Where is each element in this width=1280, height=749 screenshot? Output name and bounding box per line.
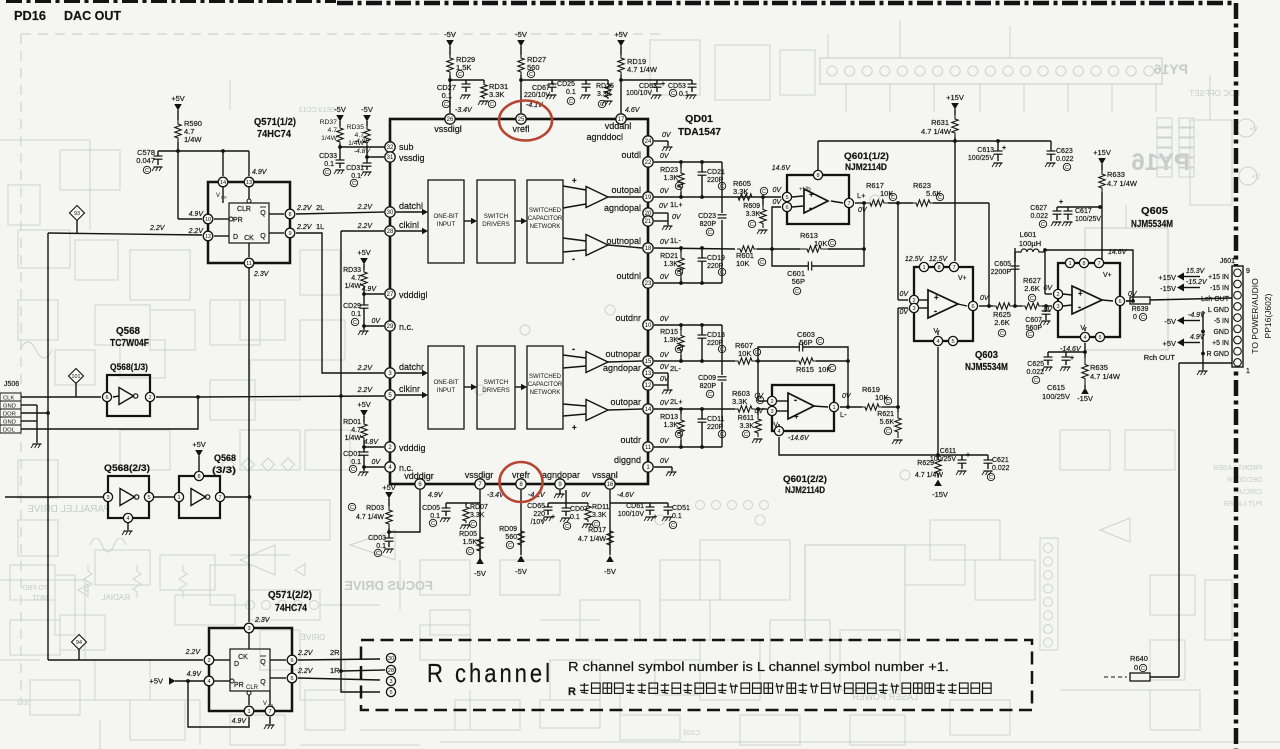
ground RD31 bbox=[480, 100, 489, 102]
pin 26 vssdigl bbox=[445, 114, 455, 124]
wire triangle L2 in bbox=[563, 238, 586, 241]
svg-text:2.2V: 2.2V bbox=[357, 387, 374, 394]
svg-text:R631: R631 bbox=[931, 118, 949, 127]
svg-text:0.022: 0.022 bbox=[1030, 213, 1048, 220]
svg-text:1L: 1L bbox=[316, 222, 324, 231]
svg-text:+: + bbox=[1059, 199, 1063, 206]
svg-text:4.7 1/4W: 4.7 1/4W bbox=[356, 514, 384, 521]
R channel dashed box bbox=[361, 640, 1032, 710]
capacitor CD05 bbox=[445, 503, 447, 508]
ground C617 bbox=[1064, 221, 1073, 223]
svg-text:2: 2 bbox=[770, 399, 773, 405]
pin q603 3 bbox=[909, 303, 918, 312]
ground J506 bbox=[33, 443, 42, 445]
stub in 1/3 bbox=[113, 396, 119, 397]
stub q603 pin2 bbox=[919, 299, 928, 301]
ground CD31 bbox=[363, 171, 372, 173]
ground CD33 bbox=[336, 169, 345, 171]
svg-text:V+: V+ bbox=[958, 275, 967, 282]
resistor R619 bbox=[862, 404, 882, 410]
pin q605 3 bbox=[1053, 301, 1062, 310]
power -5V below RD05 bbox=[476, 558, 484, 565]
svg-text:V+: V+ bbox=[1251, 174, 1260, 181]
wire +5V to pin4 bbox=[175, 680, 204, 682]
svg-text:+5V: +5V bbox=[171, 94, 185, 103]
resistor R629 bbox=[935, 455, 941, 478]
svg-text:V-: V- bbox=[933, 328, 940, 335]
pin 4 gate bbox=[123, 513, 132, 522]
svg-text:-15.2V: -15.2V bbox=[1186, 279, 1208, 286]
svg-text:3.3K: 3.3K bbox=[733, 187, 748, 196]
wire data vertical x48 bbox=[47, 233, 49, 660]
node R605 out bbox=[761, 195, 765, 199]
svg-text:11: 11 bbox=[246, 261, 252, 267]
svg-text:2200P: 2200P bbox=[991, 269, 1012, 276]
svg-text:C: C bbox=[1141, 315, 1145, 321]
pin 32 sub bbox=[385, 142, 395, 152]
svg-text:4.7: 4.7 bbox=[355, 132, 365, 139]
svg-text:3.3K: 3.3K bbox=[489, 90, 504, 99]
wire rail to pin2 q601b bbox=[757, 361, 759, 401]
svg-text:agnddocl: agnddocl bbox=[586, 132, 623, 142]
svg-text:0E13 CC13: 0E13 CC13 bbox=[299, 107, 335, 114]
svg-text:CAPACITOR: CAPACITOR bbox=[528, 382, 563, 388]
svg-text:agndopar: agndopar bbox=[603, 363, 641, 373]
svg-text:4.6V: 4.6V bbox=[625, 107, 641, 114]
svg-text:R633: R633 bbox=[1107, 170, 1125, 179]
svg-text:L+: L+ bbox=[857, 191, 866, 200]
svg-text:outdr: outdr bbox=[620, 435, 641, 445]
svg-text:Q568(1/3): Q568(1/3) bbox=[110, 362, 148, 373]
resistor R605 bbox=[733, 194, 757, 200]
svg-text:n.c.: n.c. bbox=[399, 322, 414, 332]
node DOR x48 bbox=[46, 411, 50, 415]
svg-text:-: - bbox=[934, 306, 937, 316]
wire triangle R2 out bbox=[608, 409, 642, 410]
svg-text:-15V: -15V bbox=[1077, 394, 1093, 403]
op-amp Q601(2/2) box bbox=[772, 385, 834, 431]
svg-text:0V: 0V bbox=[660, 400, 670, 407]
part mark C C578 bbox=[143, 166, 150, 173]
svg-text:NJM5534M: NJM5534M bbox=[1131, 219, 1173, 230]
svg-text:4.7 1/4W: 4.7 1/4W bbox=[578, 536, 606, 543]
wire +5V to RD19 bbox=[620, 46, 622, 55]
pin 7 vssdigr bbox=[475, 479, 485, 489]
ground C578 bbox=[154, 166, 163, 168]
pin ff2 5 bbox=[287, 673, 297, 683]
wire -5V to RD27 bbox=[520, 46, 522, 55]
svg-text:C: C bbox=[938, 195, 942, 201]
pin q605 8 bbox=[1079, 258, 1088, 267]
vertical rail x722 R bbox=[721, 325, 723, 375]
resistor RD37 bbox=[339, 121, 341, 126]
pin ff2 3 bbox=[244, 623, 254, 633]
svg-text:0V: 0V bbox=[660, 352, 670, 359]
svg-text:-V: -V bbox=[771, 422, 778, 429]
svg-text:CLR: CLR bbox=[246, 685, 259, 691]
wire rail to CD67 CD25 RD25 bbox=[521, 79, 608, 81]
capacitor CD67 electrolytic bbox=[551, 80, 553, 84]
node +15 rail bbox=[953, 139, 957, 143]
power -15V below R629 bbox=[934, 480, 942, 487]
wire +5V to R590 bbox=[177, 110, 179, 120]
svg-text:J506: J506 bbox=[4, 381, 19, 388]
svg-text:Q568: Q568 bbox=[116, 326, 140, 337]
svg-text:+5V: +5V bbox=[192, 440, 206, 449]
svg-text:TO POWER/AUDIO: TO POWER/AUDIO bbox=[1250, 278, 1260, 354]
svg-text:2L: 2L bbox=[316, 203, 324, 212]
svg-text:1: 1 bbox=[1246, 368, 1250, 375]
svg-text:vssdigl: vssdigl bbox=[434, 124, 462, 134]
svg-text:94: 94 bbox=[76, 640, 82, 646]
ground RD07 bbox=[462, 524, 471, 526]
diamond net 101 bbox=[69, 369, 84, 384]
pin 13 bbox=[244, 177, 254, 187]
svg-text:CD11: CD11 bbox=[707, 416, 724, 423]
wire 2R out bbox=[298, 659, 380, 660]
svg-text:+: + bbox=[1078, 289, 1083, 298]
svg-text:24: 24 bbox=[645, 139, 652, 145]
ground C623 bbox=[1047, 162, 1056, 164]
svg-text:sub: sub bbox=[399, 142, 414, 152]
svg-text:820P: 820P bbox=[700, 383, 717, 390]
svg-text:outdnr: outdnr bbox=[615, 313, 641, 323]
wire rail left to q601 pin8 bbox=[818, 140, 955, 142]
node vddanl top bbox=[619, 78, 623, 82]
svg-text:C: C bbox=[1065, 165, 1069, 171]
svg-text:C: C bbox=[750, 222, 754, 228]
capacitor CD23 bbox=[718, 214, 727, 216]
svg-text:0V: 0V bbox=[660, 274, 670, 281]
svg-text:C: C bbox=[830, 366, 834, 372]
wire pin28 to block bbox=[396, 230, 425, 232]
svg-text:0V: 0V bbox=[842, 393, 852, 400]
svg-text:32: 32 bbox=[387, 145, 394, 151]
wire RD35 to pin 31 bbox=[367, 146, 384, 157]
wire -15 IN bbox=[1177, 284, 1184, 292]
svg-text:6: 6 bbox=[105, 395, 108, 401]
pin 1 gate bbox=[174, 492, 183, 501]
svg-text:C611: C611 bbox=[940, 448, 956, 455]
svg-text:30: 30 bbox=[387, 210, 394, 216]
resistor R635 bbox=[1082, 358, 1088, 385]
svg-text:PD16: PD16 bbox=[14, 8, 46, 23]
stub ff2 pin6 bbox=[270, 659, 286, 661]
wire node to pin 26 bbox=[449, 80, 451, 113]
pin 8 gate bbox=[194, 471, 203, 480]
pin 28 clkinl bbox=[385, 226, 395, 236]
ground C625 bbox=[1044, 366, 1053, 368]
diamond net 94 bbox=[72, 635, 87, 650]
svg-text:3: 3 bbox=[1056, 304, 1059, 310]
stub ff2 pin7 bbox=[269, 691, 271, 705]
svg-text:0V: 0V bbox=[858, 207, 868, 214]
svg-text:PY16: PY16 bbox=[1154, 61, 1188, 77]
svg-text:+: + bbox=[966, 452, 970, 459]
svg-text:(3/3): (3/3) bbox=[212, 465, 236, 476]
svg-text:C: C bbox=[795, 289, 799, 295]
svg-text:C: C bbox=[145, 168, 149, 174]
svg-text:Q601(2/2): Q601(2/2) bbox=[783, 474, 827, 485]
flip-flop inner box bbox=[229, 203, 269, 243]
svg-text:0.1: 0.1 bbox=[351, 173, 361, 180]
red highlight ellipse vrefr bbox=[500, 462, 543, 502]
wire +5V to RD33 bbox=[363, 264, 365, 270]
capacitor CD61 bbox=[649, 503, 651, 507]
pin 5 clkinr bbox=[385, 390, 395, 400]
pin 27 vdddigl bbox=[385, 289, 395, 299]
svg-text:56P: 56P bbox=[799, 338, 812, 347]
wire +15V R633 bbox=[1101, 164, 1103, 170]
svg-text:outopar: outopar bbox=[610, 397, 641, 407]
svg-text:5.6K: 5.6K bbox=[880, 419, 895, 426]
wire q601 out bbox=[855, 202, 866, 204]
arrow blocks R 1 bbox=[464, 386, 474, 388]
svg-text:4: 4 bbox=[936, 339, 939, 345]
wire q601b pin4 down rail bbox=[779, 437, 938, 455]
node C613 bbox=[996, 139, 1000, 143]
svg-text:100/25V: 100/25V bbox=[930, 456, 956, 463]
svg-text:CD05: CD05 bbox=[422, 505, 440, 512]
pin ff2 7 bbox=[265, 706, 275, 716]
tee vssanl bbox=[610, 502, 668, 504]
svg-text:C: C bbox=[444, 102, 448, 108]
svg-text:0.1: 0.1 bbox=[672, 513, 682, 520]
resistor R633 bbox=[1099, 170, 1105, 192]
pin 29 n.c. left bbox=[385, 321, 395, 331]
svg-text:0.047: 0.047 bbox=[136, 156, 155, 165]
pin 6 vdddigr bbox=[415, 479, 425, 489]
svg-text:12.5V: 12.5V bbox=[905, 256, 925, 263]
ground R609 bbox=[759, 229, 768, 231]
part mark C CD31 bbox=[350, 179, 357, 186]
stub pin14 bbox=[222, 182, 224, 203]
svg-text:V: V bbox=[216, 193, 220, 199]
svg-text:C: C bbox=[350, 505, 354, 511]
pin 21 agndopal b bbox=[643, 216, 653, 226]
pin 7 gate bbox=[215, 492, 224, 501]
svg-text:6: 6 bbox=[290, 658, 293, 664]
svg-text:4.7 1/4W: 4.7 1/4W bbox=[1107, 179, 1138, 188]
page border chain line top bbox=[6, 0, 336, 3]
svg-text:13: 13 bbox=[645, 371, 652, 377]
svg-text:220P: 220P bbox=[707, 263, 724, 270]
node vssdigl top bbox=[448, 78, 452, 82]
svg-text:30: 30 bbox=[388, 656, 394, 662]
stub q601b out bbox=[813, 406, 828, 407]
svg-text:C: C bbox=[818, 339, 822, 345]
svg-text:DRIVE: DRIVE bbox=[301, 633, 325, 642]
svg-text:-3.4V: -3.4V bbox=[455, 107, 473, 114]
capacitor CD63 bbox=[656, 80, 658, 84]
part mark C CD33 bbox=[323, 168, 330, 175]
wire R631 node bbox=[954, 137, 956, 141]
svg-text:4.9V: 4.9V bbox=[232, 718, 248, 725]
wire outdnl rail bbox=[654, 282, 722, 284]
svg-text:2: 2 bbox=[207, 658, 210, 664]
wire q605 out to R639 bbox=[1126, 300, 1130, 302]
wire CD29 to node nc bbox=[363, 314, 365, 326]
svg-text:INPUT: INPUT bbox=[437, 387, 456, 394]
svg-text:PY16: PY16 bbox=[1131, 149, 1190, 176]
wire RD33 to node bbox=[363, 288, 365, 294]
stub pin2 q601b bbox=[758, 400, 767, 402]
capacitor CD29 bbox=[363, 294, 365, 305]
svg-text:PUT LASER: PUT LASER bbox=[1223, 501, 1262, 508]
wire +5 IN bbox=[1177, 339, 1184, 347]
svg-text:C: C bbox=[891, 195, 895, 201]
wire GND row bbox=[1201, 330, 1205, 334]
svg-text:J162: J162 bbox=[16, 701, 30, 707]
svg-text:100/25V: 100/25V bbox=[1075, 216, 1101, 223]
pin 22 outdl bbox=[643, 157, 653, 167]
svg-text:CD65: CD65 bbox=[527, 503, 545, 510]
resistor R625 bbox=[993, 303, 1013, 309]
pin q605 5 bbox=[1095, 332, 1104, 341]
svg-text:Lch OUT: Lch OUT bbox=[1201, 296, 1230, 303]
svg-text:-5V: -5V bbox=[444, 30, 456, 39]
part mark C RD31 bbox=[488, 100, 495, 107]
ground RD25 bbox=[604, 100, 613, 102]
svg-text:7: 7 bbox=[952, 265, 955, 271]
resistor RD17 bbox=[607, 526, 613, 550]
svg-text:CAPACITOR: CAPACITOR bbox=[528, 216, 563, 222]
wire triangle L1 in bbox=[563, 186, 586, 190]
svg-text:1.3K: 1.3K bbox=[664, 261, 679, 268]
ground C621 bbox=[984, 470, 993, 472]
pin q603 7 bbox=[949, 262, 958, 271]
dashed stub left of R640 bbox=[1104, 676, 1127, 678]
resistor RD01 bbox=[361, 422, 367, 440]
svg-text:4.7: 4.7 bbox=[351, 275, 361, 282]
part mark C RD27 bbox=[527, 70, 534, 77]
svg-text:ONE-BIT: ONE-BIT bbox=[433, 213, 458, 220]
svg-text:2.2V: 2.2V bbox=[296, 205, 313, 212]
pin 5 gate bbox=[144, 492, 153, 501]
svg-text:R channel: R channel bbox=[427, 658, 553, 688]
capacitor CD11 bbox=[701, 409, 703, 419]
inverter Q568(1/3) box bbox=[107, 375, 150, 416]
pin 14 bbox=[218, 177, 228, 187]
part mark C CD29 bbox=[351, 318, 358, 325]
svg-text:0V: 0V bbox=[1043, 307, 1053, 314]
svg-text:NJM5534M: NJM5534M bbox=[965, 362, 1008, 373]
svg-text:0V: 0V bbox=[660, 316, 670, 323]
wire R GND bbox=[1201, 352, 1205, 356]
svg-text:+: + bbox=[661, 81, 665, 88]
svg-text:agndopar: agndopar bbox=[542, 470, 580, 480]
wire x898 down to q603 pin2 bbox=[897, 203, 899, 300]
resistor RD11 bbox=[587, 503, 589, 504]
pin 8 bbox=[285, 209, 295, 219]
wire outnopal rail bbox=[654, 248, 735, 249]
svg-text:+5V: +5V bbox=[149, 677, 163, 686]
svg-text:R635: R635 bbox=[1090, 363, 1108, 372]
svg-text:0V: 0V bbox=[659, 203, 669, 210]
svg-text:-5V: -5V bbox=[604, 567, 616, 576]
node vrefl top bbox=[519, 78, 523, 82]
wire to pin6 vdddigr bbox=[389, 490, 420, 532]
wire pin8 down bbox=[520, 490, 522, 555]
svg-text:RD37: RD37 bbox=[320, 119, 338, 126]
wire Rch OUT row bbox=[1179, 362, 1232, 364]
note line japanese synthetic glyphs bbox=[568, 683, 991, 698]
svg-text:+5V: +5V bbox=[357, 400, 371, 409]
node clock x249 bbox=[248, 495, 252, 499]
node fb2 bbox=[846, 359, 850, 363]
svg-text:28: 28 bbox=[387, 229, 394, 235]
wire R590 to rail bbox=[177, 142, 179, 151]
op-amp internal L1 bbox=[586, 187, 608, 208]
svg-text:diggnd: diggnd bbox=[614, 455, 641, 465]
wire branch to circle 28 bbox=[341, 670, 385, 671]
wire data horiz to pin12 bbox=[48, 233, 202, 235]
svg-text:PARALLEL DRIVE: PARALLEL DRIVE bbox=[27, 504, 110, 515]
svg-text:+5V: +5V bbox=[614, 30, 628, 39]
ground diggnd pin1 bbox=[654, 466, 672, 468]
wire clkinl jog bbox=[341, 230, 384, 232]
capacitor C611 electrolytic bbox=[961, 455, 963, 460]
part mark C CD01 bbox=[349, 465, 356, 472]
svg-text:V-: V- bbox=[1080, 325, 1087, 332]
ground CD67 bbox=[548, 94, 557, 96]
svg-text:outnopar: outnopar bbox=[605, 349, 641, 359]
pin q603 1 bbox=[919, 262, 928, 271]
svg-text:C617: C617 bbox=[1075, 208, 1092, 215]
svg-text:C: C bbox=[989, 475, 993, 481]
stub ff2 pin1 bbox=[248, 695, 250, 705]
resistor R615 bbox=[796, 358, 816, 364]
net circle 28 bbox=[386, 665, 395, 674]
ground R621 bbox=[894, 439, 903, 441]
svg-text:C615: C615 bbox=[1047, 383, 1065, 392]
svg-text:4.7: 4.7 bbox=[328, 127, 338, 134]
wire 1R out bbox=[298, 678, 380, 680]
vertical rail x722 L bbox=[721, 162, 723, 213]
capacitor CD13 bbox=[701, 325, 703, 335]
wire pin30 to block bbox=[396, 211, 425, 213]
resistor R601 bbox=[737, 246, 757, 252]
capacitor CD27 bbox=[465, 80, 467, 84]
wire node to pin 25 bbox=[520, 80, 522, 113]
svg-text:R609: R609 bbox=[743, 203, 760, 210]
ground CD29 bbox=[363, 326, 365, 330]
svg-text:4.7: 4.7 bbox=[351, 427, 361, 434]
svg-text:R channel symbol number is L c: R channel symbol number is L channel sym… bbox=[568, 660, 949, 674]
svg-text:C: C bbox=[677, 347, 681, 353]
op-amp triangle Q603 bbox=[928, 290, 958, 318]
svg-text:Q571(1/2): Q571(1/2) bbox=[254, 117, 296, 128]
svg-text:CD03: CD03 bbox=[368, 535, 386, 542]
svg-text:0V: 0V bbox=[754, 408, 764, 415]
node R601 out bbox=[770, 247, 774, 251]
svg-text:TO FBD: TO FBD bbox=[22, 585, 48, 592]
stub ff2 pin2 bbox=[214, 659, 230, 661]
svg-text:Q571(2/2): Q571(2/2) bbox=[268, 590, 312, 601]
op-amp triangle Q601(1/2) bbox=[804, 189, 828, 213]
svg-text:1: 1 bbox=[247, 709, 250, 715]
svg-text:1.3K: 1.3K bbox=[664, 175, 679, 182]
pin q605 4 bbox=[1084, 328, 1086, 331]
svg-text:560: 560 bbox=[505, 534, 517, 541]
svg-text:outnopal: outnopal bbox=[606, 236, 641, 246]
node fb q605 bbox=[1131, 299, 1135, 303]
op-amp triangle Q601(2/2) bbox=[788, 393, 814, 419]
wire rail c627 bbox=[1057, 206, 1100, 208]
connector J601 body bbox=[1232, 266, 1243, 367]
block switch drivers R bbox=[477, 346, 515, 429]
svg-text:clkinl: clkinl bbox=[399, 220, 419, 230]
